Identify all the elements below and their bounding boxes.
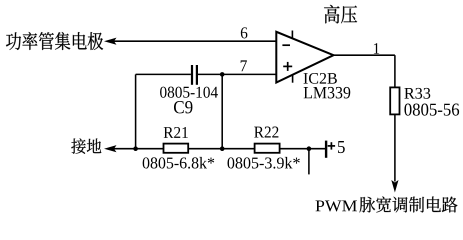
designator R33: [404, 88, 430, 99]
label power transistor collector (CJK): [6, 32, 103, 50]
pin number 1: [374, 43, 379, 54]
resistor R21 body: [164, 144, 189, 153]
label ground jiedi (CJK): [71, 138, 101, 153]
label PWM: [316, 201, 357, 212]
value 0805-6.8k*: [143, 157, 215, 169]
node left vertical/ground junction dot: [133, 146, 138, 151]
node R21/R22 junction dot: [220, 146, 225, 151]
node pin7/C9/R21/R22 junction dot: [220, 72, 225, 77]
value 0805-3.9k*: [228, 157, 300, 169]
designator R22: [254, 127, 278, 138]
designator C9: [174, 101, 192, 113]
arrowhead down to PWM circuit: [391, 180, 398, 193]
resistor R22 body: [255, 144, 280, 153]
wire middle vertical: [221, 74, 223, 148]
+5 supply bar: [325, 141, 327, 158]
wire pin7 from node to op-amp: [222, 73, 276, 75]
value 0805-56: [404, 104, 459, 116]
label PWM modulation circuit (CJK): [360, 196, 458, 212]
wire capacitor branch right segment: [198, 73, 222, 75]
wire op-amp output horizontal: [334, 54, 395, 56]
label +5: [328, 142, 335, 149]
arrowhead to ground label: [104, 145, 117, 152]
op-amp bottom power pin tick: [292, 75, 294, 83]
resistor R33 body: [390, 87, 399, 114]
op-amp plus input sign: [283, 62, 292, 71]
wire output vertical to PWM: [394, 55, 396, 181]
wire capacitor branch left segment: [136, 73, 191, 75]
wire pin6 to collector arrow: [113, 40, 276, 42]
node R22/+5 junction dot: [307, 146, 312, 151]
label IC2B: [304, 73, 337, 84]
arrowhead to power transistor collector: [104, 38, 117, 45]
label LM339: [304, 87, 351, 99]
wire stub below +5 junction: [308, 149, 310, 175]
wire left vertical: [135, 74, 137, 148]
op-amp top power pin tick: [291, 31, 293, 39]
op-amp minus input sign: [282, 44, 290, 46]
value 0805-104: [160, 87, 218, 98]
capacitor C9 plates: [192, 65, 197, 85]
pin number 7: [241, 60, 247, 71]
designator R21: [164, 127, 188, 138]
op-amp U1 IC2B LM339 triangle: [276, 32, 333, 83]
wire ground row: [113, 148, 326, 150]
label high voltage gaoya (CJK): [324, 5, 357, 24]
pin number 6: [241, 27, 248, 38]
